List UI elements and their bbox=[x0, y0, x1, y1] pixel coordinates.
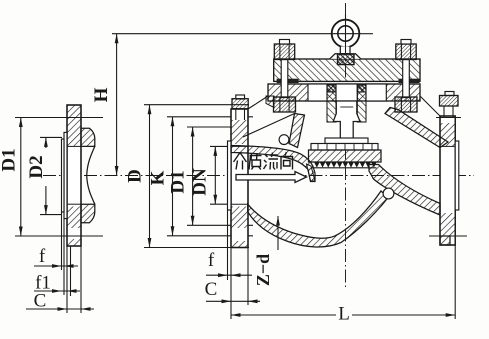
svg-text:f: f bbox=[39, 246, 46, 267]
svg-text:f: f bbox=[208, 250, 215, 271]
svg-text:Z−d: Z−d bbox=[253, 254, 273, 286]
svg-text:D1: D1 bbox=[0, 148, 20, 171]
svg-text:D2: D2 bbox=[26, 155, 47, 178]
svg-text:H: H bbox=[91, 87, 112, 102]
svg-text:K: K bbox=[148, 170, 169, 185]
svg-text:C: C bbox=[205, 279, 218, 300]
svg-text:C: C bbox=[34, 291, 47, 312]
svg-text:L: L bbox=[338, 304, 350, 325]
svg-text:D: D bbox=[125, 169, 146, 183]
svg-text:DN: DN bbox=[190, 168, 211, 196]
svg-text:D1: D1 bbox=[168, 170, 189, 193]
